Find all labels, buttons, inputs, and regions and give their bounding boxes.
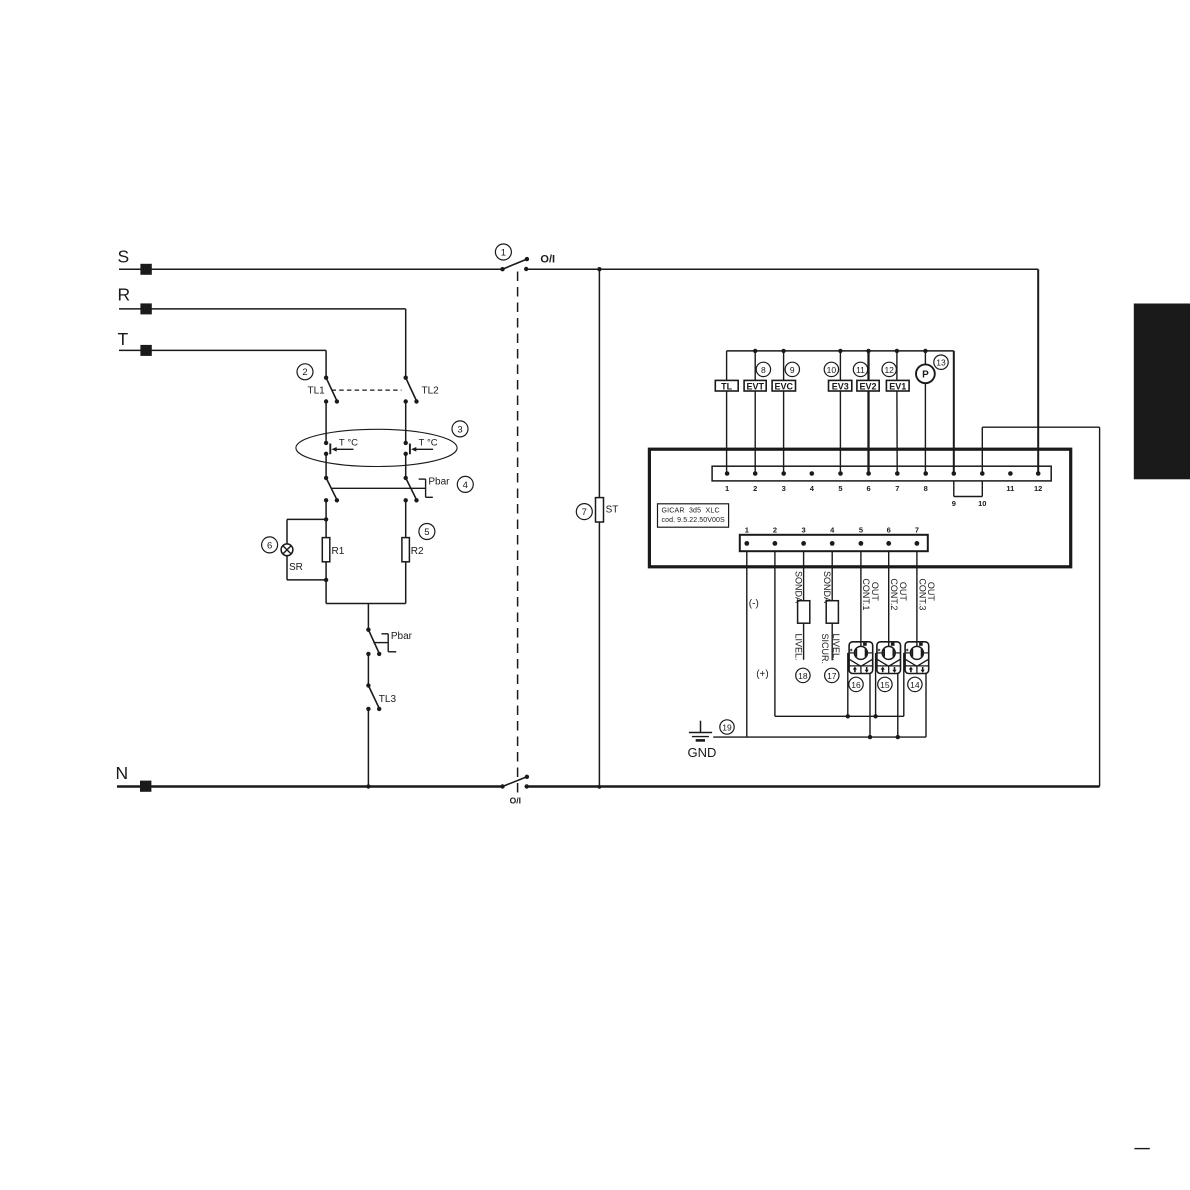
wire terminal 10 loop to N: [982, 427, 1099, 786]
load EVC (valve): [772, 351, 795, 474]
load EV3 (valve): [829, 351, 852, 474]
svg-text:SICUR.: SICUR.: [820, 634, 830, 665]
wire S line: [119, 268, 503, 270]
label O/I (bottom): [510, 796, 521, 806]
label OUT CONT.3: [917, 578, 936, 610]
svg-text:6: 6: [267, 540, 272, 551]
svg-text:2: 2: [302, 367, 307, 378]
main switch O/I contact N (1): [500, 775, 529, 789]
svg-text:EVC: EVC: [775, 381, 794, 391]
callout 12: [882, 362, 896, 376]
dashed link TL1-TL2: [332, 389, 402, 391]
svg-text:6: 6: [887, 526, 891, 535]
svg-text:6: 6: [867, 484, 871, 493]
svg-text:TL2: TL2: [422, 386, 440, 397]
node bus junction x896.9: [895, 349, 899, 353]
resistor R2: [402, 538, 424, 604]
node bus junction x868.5: [866, 349, 870, 353]
callout 19: [720, 720, 734, 734]
callout 8: [756, 362, 770, 376]
callout 1: [495, 244, 511, 260]
label OUT CONT.1: [861, 578, 880, 610]
node bus junction x755.2: [753, 349, 757, 353]
svg-text:10: 10: [978, 499, 986, 508]
node junction S-ST: [597, 267, 601, 271]
mechanical link Pbar pair: [332, 479, 433, 497]
svg-text:7: 7: [582, 507, 587, 518]
terminal strip lower (terminals 1-7): [740, 535, 928, 551]
svg-text:9: 9: [790, 365, 795, 375]
wire R line: [119, 309, 406, 378]
wire bus to terminal 9: [953, 351, 955, 474]
mechanical link Pbar single: [373, 634, 396, 652]
node junction N-ST: [598, 785, 602, 789]
svg-text:TL1: TL1: [308, 386, 326, 397]
main switch O/I contact S (1): [500, 257, 529, 272]
wire common bus (top): [727, 350, 954, 352]
svg-text:T °C: T °C: [339, 437, 358, 448]
svg-text:GICAR 3d5 XLC: GICAR 3d5 XLC: [662, 508, 720, 515]
svg-text:8: 8: [924, 484, 928, 493]
svg-text:4: 4: [463, 480, 468, 491]
phase T terminal: [118, 329, 152, 356]
wire TL1 to thermostat: [325, 402, 327, 443]
switch TL3: [366, 683, 396, 711]
signal lamp SR (6): [281, 544, 303, 573]
callout 2: [297, 364, 313, 380]
callout 7: [576, 504, 592, 520]
svg-text:2: 2: [753, 484, 757, 493]
callout 9: [785, 362, 799, 376]
svg-text:GND: GND: [688, 745, 717, 760]
wire Pbar to TL3: [367, 654, 369, 686]
svg-text:SONDA: SONDA: [794, 571, 804, 603]
callout 17: [825, 668, 839, 682]
probe SONDA LIVEL (18): [794, 551, 810, 660]
label Pbar (single): [391, 631, 413, 642]
load TL (lamp): [715, 351, 738, 474]
svg-text:CONT.2: CONT.2: [889, 578, 899, 610]
ground symbol GND (19): [688, 721, 717, 760]
callout 15: [878, 677, 892, 691]
wire R1-R2 bottom join: [326, 604, 406, 630]
label O/I (top): [540, 254, 555, 266]
svg-text:T °C: T °C: [419, 437, 438, 448]
phase S terminal: [118, 247, 152, 275]
pressure switch Pbar single: [366, 628, 381, 657]
svg-text:S: S: [118, 247, 130, 267]
callout 11: [853, 362, 867, 376]
svg-text:SONDA: SONDA: [822, 571, 832, 603]
svg-text:10: 10: [827, 365, 837, 375]
wire device15 return: [897, 674, 899, 738]
switch TL2: [404, 376, 440, 404]
svg-text:EV1: EV1: [889, 381, 906, 391]
black index tab (page margin marker): [1134, 304, 1190, 480]
svg-text:Pbar: Pbar: [391, 631, 413, 642]
pressure switch Pbar contact left (4): [324, 476, 339, 503]
svg-text:12: 12: [884, 365, 894, 375]
label box GICAR 3d5 XLC cod. 9.5.22.50V00S: [658, 504, 729, 527]
callout 10: [824, 362, 838, 376]
page mark (bottom right): [1134, 1148, 1149, 1150]
svg-text:O/I: O/I: [510, 796, 521, 806]
svg-text:14: 14: [910, 680, 920, 690]
svg-text:13: 13: [936, 358, 946, 368]
svg-text:7: 7: [915, 526, 919, 535]
wire device16 return: [869, 674, 871, 738]
node bus junction x925.4: [923, 349, 927, 353]
switch TL1 (2): [308, 376, 340, 404]
probe SONDA LIVEL SICUR (17): [820, 551, 841, 664]
svg-text:17: 17: [827, 671, 837, 681]
wire TL2 to thermostat: [405, 402, 407, 443]
svg-text:5: 5: [424, 527, 429, 538]
thermostat contact T degC (left): [324, 437, 358, 456]
jumper terminals 9-10: [954, 481, 983, 497]
neutral N terminal: [116, 763, 152, 792]
label OUT CONT.2: [889, 578, 908, 610]
wire N line left: [117, 785, 503, 787]
svg-text:18: 18: [798, 671, 808, 681]
callout 18: [796, 668, 810, 682]
svg-text:CONT.1: CONT.1: [861, 578, 871, 610]
wire thermostat R down: [405, 454, 407, 478]
wire thermostat L down: [325, 454, 327, 478]
dosing motor device (16): [849, 551, 873, 673]
callout 6: [262, 537, 278, 553]
svg-text:TL: TL: [721, 381, 732, 391]
svg-text:9: 9: [952, 499, 956, 508]
wire TL3 to N: [366, 709, 370, 789]
dosing motor device (15): [877, 551, 901, 673]
wire device15 plus: [875, 653, 877, 716]
load EV1 (valve): [886, 351, 909, 474]
wire device14 return: [925, 674, 927, 738]
svg-text:Pbar: Pbar: [428, 477, 450, 488]
svg-text:T: T: [118, 329, 129, 349]
svg-text:16: 16: [851, 680, 861, 690]
svg-text:19: 19: [722, 722, 732, 732]
controller unit GICAR 3d5 XLC (outline): [649, 449, 1070, 567]
callout 16: [849, 677, 863, 691]
dashed mechanical link of main switch: [517, 272, 519, 795]
svg-text:R1: R1: [332, 546, 345, 557]
callout 14: [908, 677, 922, 691]
callout 4: [457, 476, 473, 492]
svg-text:ST: ST: [606, 504, 619, 515]
pin numbers 1-8,11,12: [725, 484, 1042, 493]
wire SR branch bottom: [287, 556, 326, 580]
wire device16 plus: [847, 653, 849, 716]
wire Pbar-R to R2: [405, 500, 407, 537]
terminal strip upper (terminals 1-12): [712, 466, 1051, 481]
svg-text:12: 12: [1034, 484, 1042, 493]
svg-text:O/I: O/I: [540, 254, 555, 266]
node bus junction x840.4: [838, 349, 842, 353]
wire terminal 1 to GND bus: [746, 551, 748, 737]
svg-text:11: 11: [1006, 484, 1014, 493]
svg-text:TL3: TL3: [379, 694, 397, 705]
resistor R1: [322, 538, 344, 604]
svg-text:3: 3: [802, 526, 806, 535]
callout 13: [934, 355, 948, 369]
svg-text:LIVEL.: LIVEL.: [831, 634, 841, 661]
svg-text:cod. 9.5.22.50V00S: cod. 9.5.22.50V00S: [662, 517, 726, 524]
wire S to terminal 12: [526, 269, 1038, 473]
svg-text:EVT: EVT: [746, 381, 764, 391]
svg-text:(-): (-): [749, 599, 759, 610]
svg-text:LIVEL.: LIVEL.: [794, 634, 804, 661]
wire Pbar-L to R1: [325, 500, 327, 537]
svg-text:3: 3: [782, 484, 786, 493]
svg-text:8: 8: [761, 365, 766, 375]
svg-text:R2: R2: [411, 546, 424, 557]
label Pbar (pair): [428, 477, 450, 488]
pin numbers lower 1-7: [745, 526, 919, 535]
label (+) polarity: [756, 669, 769, 680]
wire GND bus: [713, 735, 926, 739]
wire SR branch top: [287, 519, 326, 544]
node junction R1 bottom branch: [324, 578, 328, 582]
phase R terminal: [118, 285, 152, 315]
callout 3: [452, 421, 468, 437]
svg-text:2: 2: [773, 526, 777, 535]
svg-text:EV3: EV3: [832, 381, 849, 391]
svg-text:7: 7: [895, 484, 899, 493]
label (-) polarity: [749, 599, 759, 610]
svg-text:15: 15: [880, 680, 890, 690]
thermostat contact T degC (right): [404, 437, 438, 456]
node junction R1 top branch: [324, 517, 328, 521]
svg-text:N: N: [116, 763, 129, 783]
terminal dots 1-12: [725, 471, 1041, 476]
svg-text:CONT.3: CONT.3: [917, 578, 927, 610]
load EVT (valve): [744, 351, 766, 474]
callout 5: [419, 524, 435, 540]
thermostat group ellipse (3): [296, 429, 457, 466]
load EV2 (valve): [857, 351, 879, 474]
wire T line: [119, 350, 326, 377]
svg-text:5: 5: [859, 526, 863, 535]
node bus junction x783.6: [781, 349, 785, 353]
svg-text:1: 1: [745, 526, 749, 535]
wire ST branch: [598, 269, 600, 787]
overtemp device ST (7): [596, 498, 619, 522]
pump motor P (13): [916, 351, 935, 474]
svg-text:3: 3: [457, 424, 462, 435]
svg-text:5: 5: [838, 484, 842, 493]
svg-text:1: 1: [501, 247, 506, 258]
terminal dots lower 1-7: [744, 541, 919, 546]
svg-text:SR: SR: [289, 562, 303, 573]
pressure switch Pbar contact right (4): [404, 476, 419, 503]
wire plus bus: [775, 714, 904, 718]
svg-text:EV2: EV2: [859, 381, 876, 391]
dosing motor device (14): [905, 551, 929, 673]
pin numbers 9,10: [952, 499, 987, 508]
wire device14 plus: [903, 653, 905, 716]
wire terminal 2 to plus bus: [774, 551, 776, 716]
svg-text:11: 11: [856, 365, 865, 375]
svg-text:R: R: [118, 285, 131, 305]
svg-text:P: P: [922, 370, 929, 381]
svg-text:1: 1: [725, 484, 729, 493]
wire N line right: [527, 785, 1100, 787]
svg-text:(+): (+): [756, 669, 769, 680]
